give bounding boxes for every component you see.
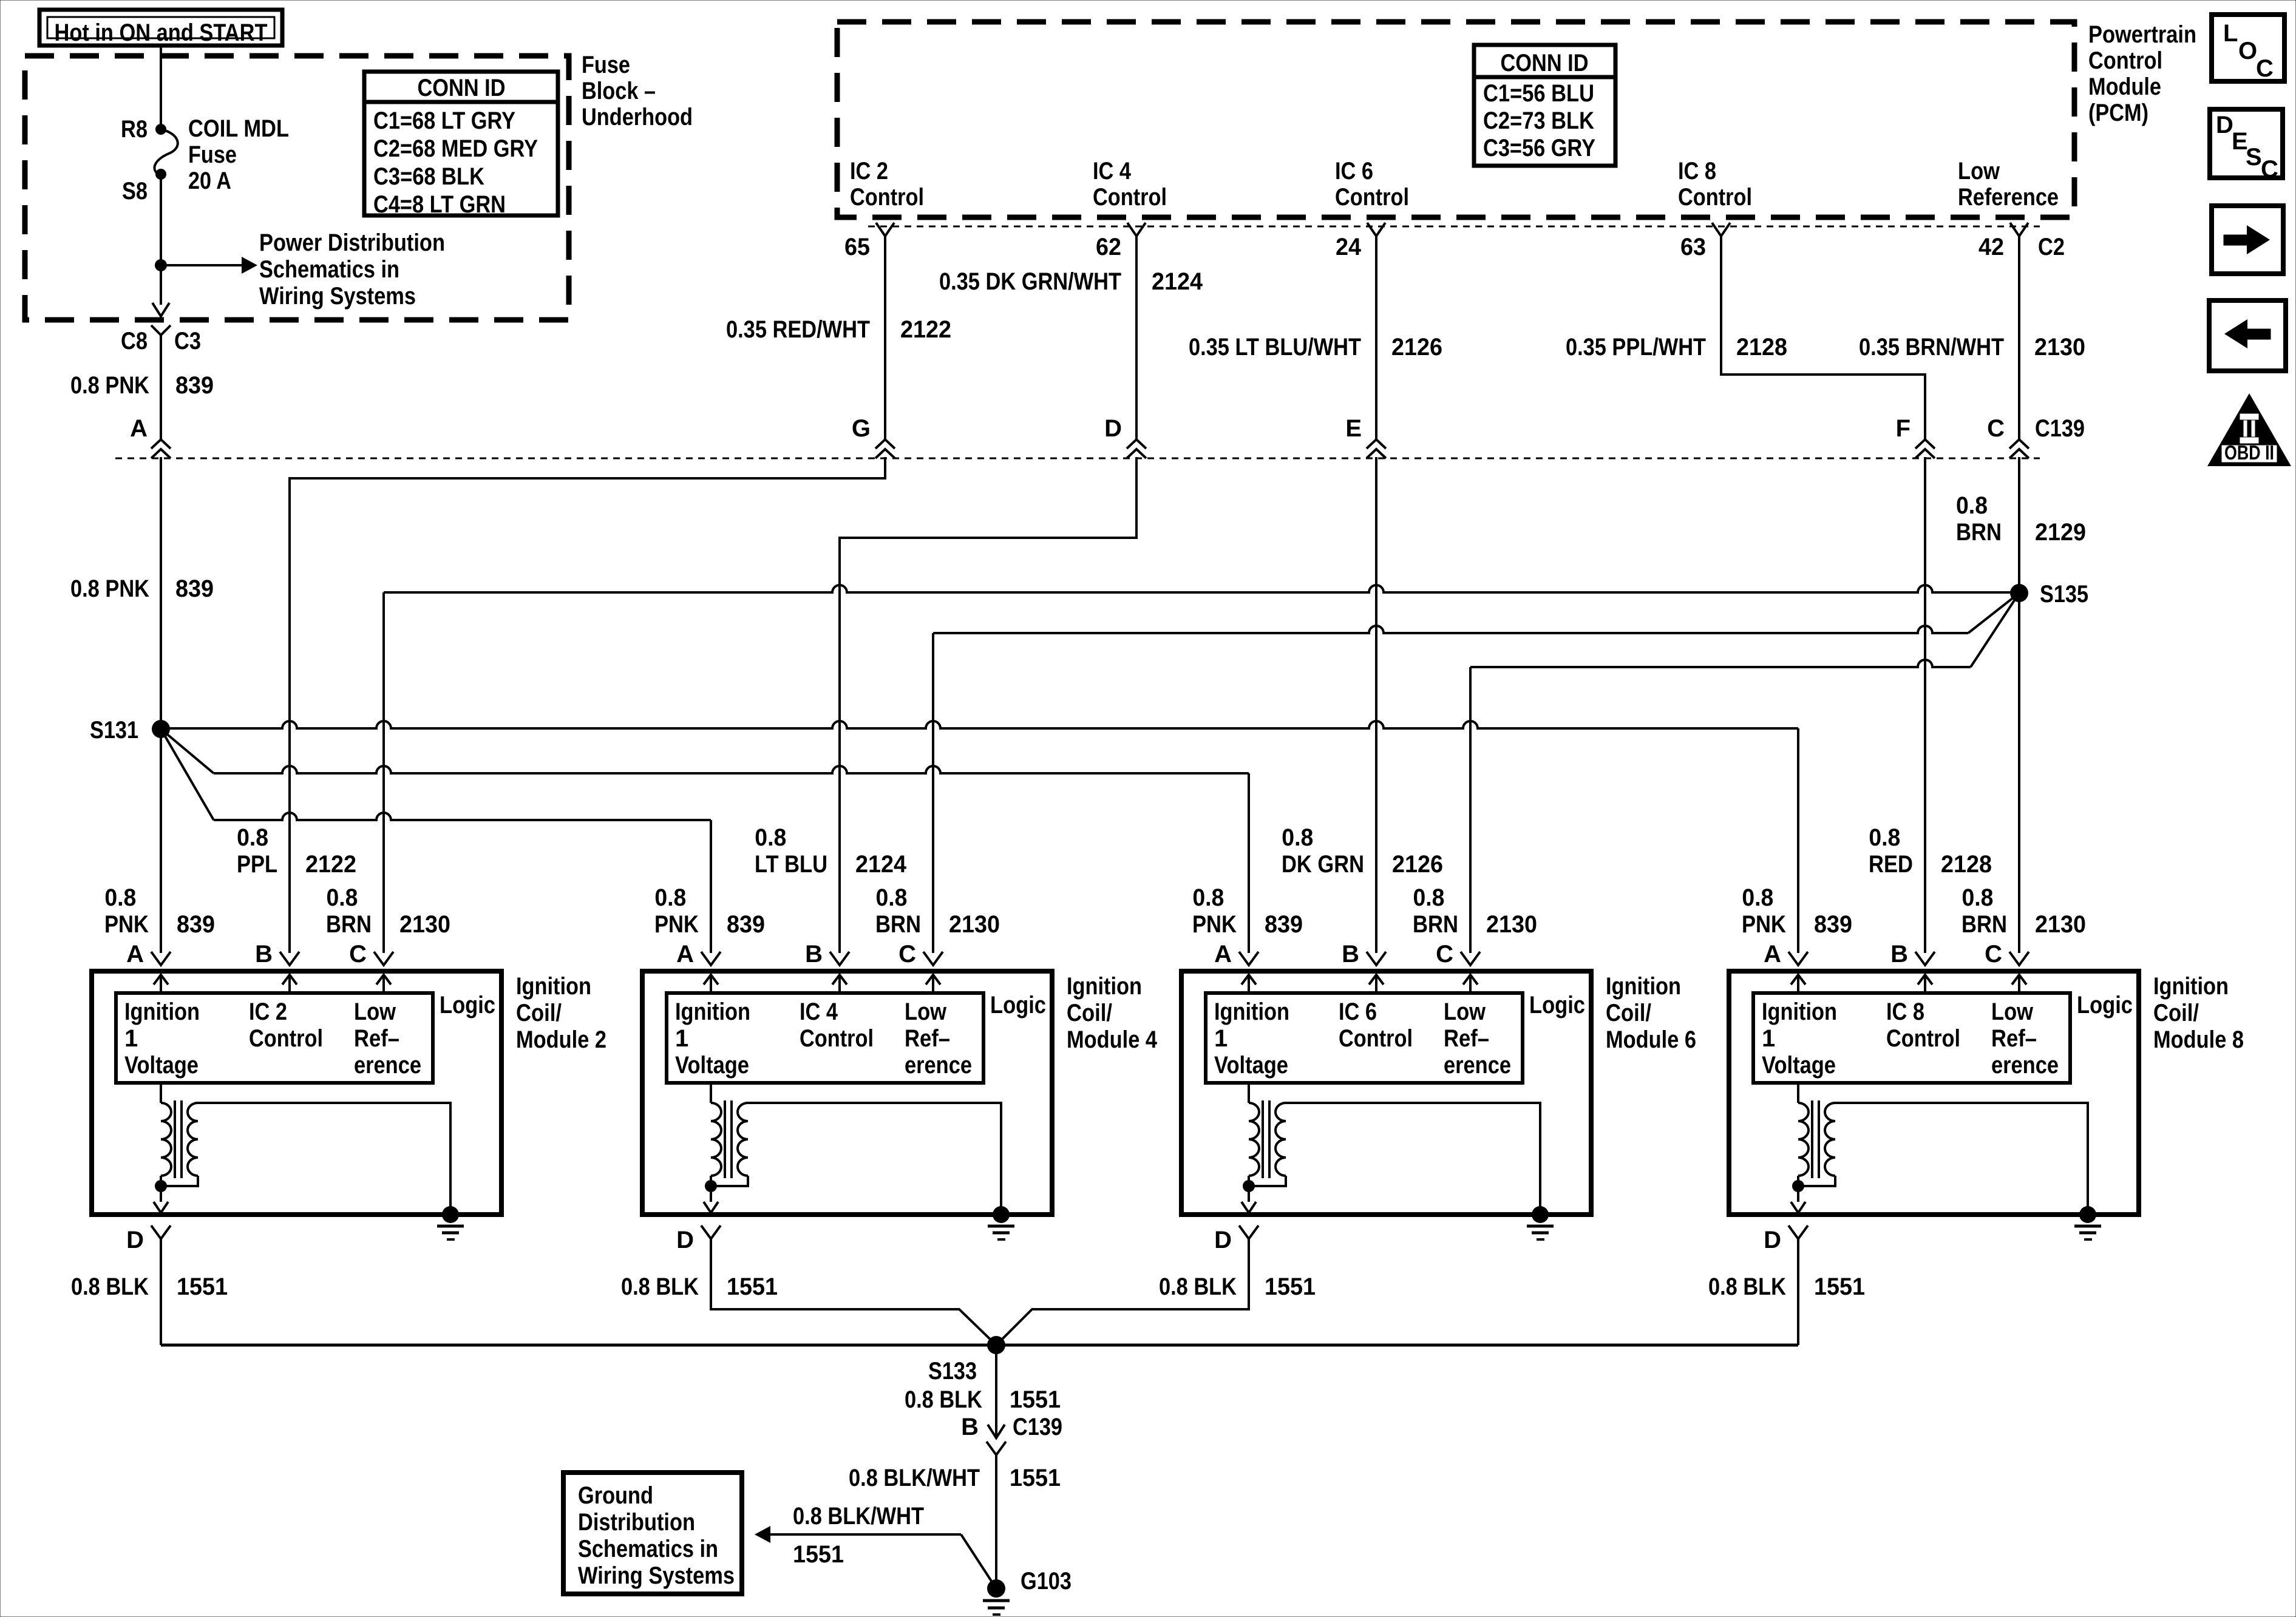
- module 6 ignition coil secondary winding: [1275, 1103, 1286, 1176]
- svg-text:B: B: [961, 1414, 979, 1440]
- svg-text:0.8 BLK: 0.8 BLK: [1159, 1273, 1237, 1300]
- module 4 terminal A internal arrow: [704, 975, 718, 993]
- svg-text:0.8: 0.8: [1956, 492, 1988, 519]
- module 8 label "Ignition Coil/Module 8": [2153, 973, 2244, 1053]
- module 2 label "Ignition Coil/Module 2": [516, 973, 606, 1053]
- module 2 terminal C internal arrow: [376, 975, 391, 993]
- module 6 transformer core: [1263, 1100, 1269, 1178]
- svg-text:Wiring Systems: Wiring Systems: [578, 1562, 735, 1589]
- module 8 terminal A connector symbol: [1788, 952, 1808, 965]
- PCM pin 63 connector symbol: [1712, 223, 1730, 236]
- svg-text:C139: C139: [1013, 1414, 1062, 1440]
- circuit number 1551 at S133: [1010, 1386, 1061, 1413]
- C139 B connector symbol (arrow and chevron down): [987, 1425, 1006, 1455]
- ignition coil/module 2 outer box: [92, 971, 501, 1215]
- svg-text:D: D: [1104, 415, 1122, 442]
- PCM dashed box (Powertrain Control Module): [837, 22, 2074, 217]
- svg-text:Module 4: Module 4: [1067, 1026, 1158, 1053]
- circuit number 839 (upper): [175, 372, 214, 399]
- svg-text:0.35 RED/WHT: 0.35 RED/WHT: [726, 316, 870, 343]
- svg-text:2128: 2128: [1941, 851, 1992, 878]
- svg-text:Logic: Logic: [1529, 992, 1585, 1019]
- svg-text:0.8: 0.8: [237, 824, 268, 851]
- module 2 D drop wire: [160, 1239, 162, 1345]
- svg-text:Module 6: Module 6: [1606, 1026, 1696, 1053]
- ground bus wire (0.8 BLK 1551) from module 2 D and module 8 D: [161, 1344, 1798, 1347]
- C139 cavity F connector symbol: [1915, 439, 1935, 458]
- module 4 terminal C internal arrow: [926, 975, 940, 993]
- module 6 internal arrow to case bottom: [1241, 1186, 1256, 1213]
- wire label 0.35 DK GRN/WHT: [939, 268, 1121, 295]
- module 2 internal junction dot: [155, 1180, 167, 1192]
- pin number 62: [1096, 234, 1121, 260]
- svg-text:1551: 1551: [793, 1541, 844, 1568]
- module 4 ignition coil secondary winding: [738, 1103, 748, 1176]
- svg-text:C4=8 LT GRN: C4=8 LT GRN: [373, 191, 506, 218]
- cavity letter A: [130, 415, 148, 442]
- module 6 pin name Low Ref-erence: [1444, 998, 1511, 1079]
- svg-text:C3=68 BLK: C3=68 BLK: [373, 163, 484, 190]
- svg-text:D: D: [1764, 1227, 1781, 1253]
- svg-text:IC 6: IC 6: [1335, 158, 1373, 185]
- module 4 terminal B connector symbol: [830, 952, 849, 965]
- circuit number 2130 (PCM side): [2034, 334, 2085, 361]
- module 2 transformer core: [175, 1100, 182, 1178]
- svg-text:R8: R8: [121, 116, 148, 143]
- svg-text:IC 4: IC 4: [1093, 158, 1132, 185]
- svg-text:0.8: 0.8: [1413, 884, 1444, 911]
- wire label 0.35 LT BLU/WHT: [1189, 334, 1361, 361]
- splice label S133: [928, 1358, 977, 1385]
- module 8 logic box: [1753, 993, 2070, 1083]
- svg-text:C: C: [2256, 55, 2274, 82]
- module 8 internal junction dot: [1792, 1180, 1804, 1192]
- svg-text:2124: 2124: [855, 851, 907, 878]
- svg-text:2130: 2130: [399, 911, 450, 938]
- svg-text:Coil/: Coil/: [516, 1000, 562, 1026]
- row C2=73 BLK: [1483, 107, 1594, 134]
- C139 cavity D connector symbol: [1127, 439, 1146, 458]
- C139 cavity A connector symbol: [151, 439, 171, 458]
- OBD II triangle symbol: [2207, 393, 2291, 466]
- wire label 0.8 BLK 1551 at module 4 D: [621, 1273, 778, 1300]
- wire label 0.8 BLK 1551 at module 2 D: [71, 1273, 228, 1300]
- wire 2122 from pin 65 (0.35 RED/WHT): [884, 236, 886, 439]
- module 4 logic box: [667, 993, 983, 1083]
- module 8 terminal letter C: [1985, 941, 2002, 968]
- svg-text:Hot in ON and START: Hot in ON and START: [55, 19, 268, 46]
- arrowhead into ground distribution box: [755, 1526, 770, 1543]
- svg-text:0.35 PPL/WHT: 0.35 PPL/WHT: [1566, 334, 1706, 361]
- svg-text:B: B: [1342, 941, 1359, 968]
- module 4 transformer core: [725, 1100, 732, 1178]
- svg-text:42: 42: [1978, 234, 2004, 260]
- svg-text:B: B: [1890, 941, 1908, 968]
- wire 839 from C139 A to splice S131 (0.8 PNK): [160, 457, 162, 729]
- ground label G103: [1021, 1568, 1072, 1595]
- svg-text:erence: erence: [1444, 1052, 1511, 1079]
- wire 2122 from C139 G to module 2 terminal B (0.8 PPL): [290, 457, 885, 953]
- svg-text:D: D: [676, 1227, 694, 1253]
- svg-text:D: D: [2216, 112, 2233, 138]
- note text Ground Distribution Schematics in Wiring Systems: [578, 1482, 735, 1589]
- svg-text:Control: Control: [1678, 184, 1752, 211]
- svg-text:IC 6: IC 6: [1339, 998, 1377, 1025]
- svg-text:Low: Low: [1958, 158, 2000, 185]
- svg-text:839: 839: [1814, 911, 1852, 938]
- module 2 A drop wire from S131 (0.8 PNK 839): [160, 729, 162, 953]
- module 2 Logic label: [440, 992, 495, 1019]
- module 8 terminal A internal arrow: [1791, 975, 1805, 993]
- svg-text:Voltage: Voltage: [1762, 1052, 1836, 1079]
- wire label 0.8 PNK 839 at module 4 A: [654, 884, 765, 938]
- module 8 terminal letter D: [1764, 1227, 1781, 1253]
- svg-text:1551: 1551: [1010, 1386, 1061, 1413]
- svg-text:Ref–: Ref–: [1444, 1025, 1489, 1052]
- svg-text:Low: Low: [905, 998, 947, 1025]
- C139 cavity E connector symbol: [1367, 439, 1386, 458]
- ignition coil/module 4 outer box: [642, 971, 1052, 1215]
- svg-text:Fuse: Fuse: [188, 141, 237, 168]
- module 8 pin name Low Ref-erence: [1991, 998, 2059, 1079]
- wire 2124 from pin 62 (0.35 DK GRN/WHT): [1135, 236, 1138, 439]
- wire label 0.35 PPL/WHT: [1566, 334, 1706, 361]
- svg-text:CONN ID: CONN ID: [418, 75, 506, 101]
- svg-text:63: 63: [1680, 234, 1706, 260]
- svg-text:Control: Control: [1886, 1025, 1960, 1052]
- wire label 0.35 BRN/WHT: [1859, 334, 2004, 361]
- svg-text:C: C: [1985, 941, 2002, 968]
- cavity letter G: [852, 415, 871, 442]
- circuit number 1551 (vertical run): [1010, 1465, 1061, 1491]
- svg-text:OBD II: OBD II: [2224, 441, 2274, 464]
- wire from fuse S8 down to fuse block exit: [160, 174, 162, 305]
- svg-text:Control: Control: [850, 184, 924, 211]
- svg-text:2122: 2122: [900, 316, 951, 343]
- module 6 terminal letter A: [1214, 941, 1232, 968]
- svg-text:erence: erence: [905, 1052, 972, 1079]
- svg-text:BRN: BRN: [875, 911, 921, 938]
- module 4 internal arrow to case bottom: [704, 1186, 718, 1213]
- svg-text:2128: 2128: [1736, 334, 1787, 361]
- splice S131: [152, 720, 170, 738]
- svg-text:839: 839: [175, 575, 214, 602]
- wire 2129 from C139 C to splice S135 (0.8 BRN): [2018, 457, 2020, 593]
- svg-text:Schematics in: Schematics in: [259, 256, 399, 283]
- pin number 63: [1680, 234, 1706, 260]
- svg-text:Coil/: Coil/: [2153, 1000, 2199, 1026]
- svg-text:B: B: [255, 941, 273, 968]
- row C3=56 GRY: [1483, 135, 1595, 161]
- svg-text:Block –: Block –: [582, 78, 656, 104]
- svg-text:2129: 2129: [2035, 519, 2086, 546]
- module 6 terminal C internal arrow: [1463, 975, 1478, 993]
- module 8 secondary high-tension lead: [1835, 1103, 2088, 1215]
- module 4 terminal C connector symbol: [923, 952, 943, 965]
- wire label 0.8 BLK/WHT (vertical run): [849, 1465, 980, 1491]
- svg-text:0.35 LT BLU/WHT: 0.35 LT BLU/WHT: [1189, 334, 1361, 361]
- wire label 0.8 PNK (upper): [70, 372, 149, 399]
- module 6 primary-to-D wire: [1248, 1176, 1250, 1186]
- wire label 0.8 PNK 839 at module 2 A: [104, 884, 215, 938]
- note "Power Distribution Schematics in Wiring Systems": [259, 229, 445, 310]
- wire label 0.8 LT BLU 2124 at module 4 B: [755, 824, 907, 878]
- fuse F COIL MDL 20A S-curve element: [154, 129, 177, 175]
- wire label 0.8 BLK 1551 at module 8 D: [1708, 1273, 1865, 1300]
- module 2 secondary high-tension lead: [198, 1103, 450, 1215]
- svg-text:Schematics in: Schematics in: [578, 1536, 718, 1562]
- CONN ID header (fuse block): [418, 75, 506, 101]
- svg-text:1551: 1551: [727, 1273, 778, 1300]
- svg-text:PPL: PPL: [237, 851, 277, 878]
- wire label 0.8 PPL 2122 at module 2 B: [237, 824, 356, 878]
- module 6 secondary return wire: [1249, 1176, 1286, 1186]
- module 4 D drop wire with jog to S133: [711, 1239, 996, 1345]
- svg-text:65: 65: [844, 234, 870, 260]
- svg-text:PNK: PNK: [1742, 911, 1786, 938]
- forward arrow icon box: [2212, 206, 2283, 274]
- module 2 pin name Low Ref-erence: [354, 998, 421, 1079]
- cavity letter C: [1987, 415, 2005, 442]
- module 6 D drop wire with jog to S133: [996, 1239, 1249, 1345]
- svg-text:S131: S131: [90, 717, 138, 744]
- fuse block dashed box (Fuse Block - Underhood): [25, 56, 569, 320]
- svg-text:C: C: [1987, 415, 2005, 442]
- svg-text:0.8 BLK: 0.8 BLK: [1708, 1273, 1786, 1300]
- wire label 0.35 RED/WHT: [726, 316, 870, 343]
- svg-text:Voltage: Voltage: [1214, 1052, 1288, 1079]
- svg-text:Logic: Logic: [440, 992, 495, 1019]
- module 8 terminal C internal arrow: [2012, 975, 2026, 993]
- svg-text:2126: 2126: [1392, 851, 1443, 878]
- module 4 wire logic box to coil: [710, 1083, 712, 1103]
- cavity letter E: [1345, 415, 1362, 442]
- brn line 2 from module 4 C to S135 with diagonal: [933, 593, 2019, 633]
- svg-text:S8: S8: [122, 178, 148, 205]
- PCM label "Powertrain Control Module (PCM)": [2088, 21, 2196, 126]
- svg-text:0.8: 0.8: [755, 824, 786, 851]
- svg-text:Module 2: Module 2: [516, 1026, 606, 1053]
- module 8 pin name IC 8 Control: [1886, 998, 1960, 1052]
- svg-text:Coil/: Coil/: [1067, 1000, 1112, 1026]
- label R8: [121, 116, 148, 143]
- svg-text:C: C: [2261, 156, 2278, 183]
- wire label 0.8 PNK 839 at module 8 A: [1742, 884, 1852, 938]
- fuse value label "COIL MDL Fuse 20 A": [188, 115, 289, 194]
- svg-text:Underhood: Underhood: [582, 104, 693, 131]
- wire 2126 from C139 E to module 6 terminal B (0.8 DK GRN): [1375, 457, 1377, 953]
- svg-text:Power Distribution: Power Distribution: [259, 229, 445, 256]
- PCM pin 42 connector symbol: [2010, 223, 2028, 236]
- svg-text:PNK: PNK: [1192, 911, 1237, 938]
- LOC icon box: [2212, 15, 2284, 82]
- svg-text:0.8 BLK: 0.8 BLK: [621, 1273, 699, 1300]
- module 2 internal arrow to case bottom: [154, 1186, 168, 1213]
- svg-text:839: 839: [177, 911, 215, 938]
- svg-text:Ignition: Ignition: [516, 973, 591, 1000]
- svg-text:LT BLU: LT BLU: [755, 851, 827, 878]
- module 2 wire logic box to coil: [160, 1083, 162, 1103]
- splice S135: [2010, 584, 2028, 602]
- module 8 primary-to-D wire: [1797, 1176, 1799, 1186]
- wire label 0.8 BRN 2130 at module 6 C: [1413, 884, 1537, 938]
- module 4 terminal A connector symbol: [701, 952, 721, 965]
- svg-text:1: 1: [1762, 1025, 1775, 1052]
- module 8 internal arrow to case bottom: [1791, 1186, 1805, 1213]
- module 8 ground symbol: [2074, 1206, 2101, 1239]
- svg-text:0.8: 0.8: [1282, 824, 1313, 851]
- module 6 terminal B internal arrow: [1369, 975, 1384, 993]
- PCM connector C2 dashed line: [868, 226, 2040, 228]
- module 4 primary-to-D wire: [710, 1176, 712, 1186]
- svg-text:(PCM): (PCM): [2088, 100, 2148, 126]
- back arrow icon box: [2209, 300, 2286, 371]
- module 6 secondary high-tension lead: [1286, 1103, 1540, 1215]
- svg-text:20 A: 20 A: [188, 168, 231, 194]
- svg-text:Wiring Systems: Wiring Systems: [259, 283, 416, 310]
- svg-text:Low: Low: [1991, 998, 2034, 1025]
- module 4 terminal letter D: [676, 1227, 694, 1253]
- module 6 C drop wire (0.8 BRN 2130): [1469, 667, 1472, 953]
- svg-text:Control: Control: [1093, 184, 1167, 211]
- svg-text:Ref–: Ref–: [1991, 1025, 2037, 1052]
- svg-text:Voltage: Voltage: [675, 1052, 749, 1079]
- svg-text:1551: 1551: [1814, 1273, 1865, 1300]
- splice label S131: [90, 717, 138, 744]
- row C3=68 BLK: [373, 163, 484, 190]
- row C1=68 LT GRY: [373, 107, 515, 134]
- svg-text:0.8: 0.8: [1742, 884, 1773, 911]
- svg-text:D: D: [126, 1227, 144, 1253]
- module 8 terminal B internal arrow: [1918, 975, 1932, 993]
- svg-text:BRN: BRN: [1413, 911, 1458, 938]
- pin function label IC 4 Control: [1093, 158, 1167, 211]
- module 8 terminal B connector symbol: [1915, 952, 1935, 965]
- module 4 terminal letter A: [676, 941, 694, 968]
- svg-text:24: 24: [1336, 234, 1362, 260]
- module 2 terminal A connector symbol: [151, 952, 171, 965]
- svg-text:0.8 BLK: 0.8 BLK: [71, 1273, 149, 1300]
- module 2 ignition coil secondary winding: [188, 1103, 198, 1176]
- connector C139 dashed line: [115, 458, 2040, 459]
- svg-text:DK GRN: DK GRN: [1282, 851, 1364, 878]
- wire label 0.8 RED 2128 at module 8 B: [1869, 824, 1992, 878]
- svg-text:PNK: PNK: [654, 911, 699, 938]
- svg-text:C2=68 MED GRY: C2=68 MED GRY: [373, 135, 538, 162]
- module 6 terminal letter B: [1342, 941, 1359, 968]
- ignition coil/module 8 outer box: [1729, 971, 2139, 1215]
- module 2 secondary return wire: [161, 1176, 198, 1186]
- svg-text:G: G: [852, 415, 871, 442]
- module 2 C drop wire (0.8 BRN 2130): [382, 592, 385, 953]
- svg-text:Ignition: Ignition: [1606, 973, 1681, 1000]
- svg-text:Fuse: Fuse: [582, 52, 630, 78]
- svg-text:1551: 1551: [177, 1273, 228, 1300]
- CONN ID header (PCM): [1501, 50, 1589, 76]
- svg-text:62: 62: [1096, 234, 1121, 260]
- svg-text:O: O: [2238, 38, 2257, 64]
- svg-text:0.8: 0.8: [654, 884, 686, 911]
- svg-text:Control: Control: [800, 1025, 874, 1052]
- svg-text:S133: S133: [928, 1358, 977, 1385]
- module 8 ignition coil primary winding: [1798, 1103, 1809, 1176]
- cavity letter D (C139): [1104, 415, 1122, 442]
- splice label S135: [2040, 581, 2088, 608]
- arrowhead leaving fuse block: [152, 303, 169, 316]
- svg-text:Distribution: Distribution: [578, 1509, 695, 1536]
- module 4 secondary high-tension lead: [748, 1103, 1001, 1215]
- svg-text:Ignition: Ignition: [1067, 973, 1142, 1000]
- svg-text:COIL MDL: COIL MDL: [188, 115, 289, 142]
- svg-text:C: C: [1436, 941, 1453, 968]
- module 8 C drop wire from S135 (0.8 BRN 2130): [2018, 593, 2020, 953]
- fuse block label "Fuse Block - Underhood": [582, 52, 693, 131]
- svg-text:C1=56 BLU: C1=56 BLU: [1483, 80, 1594, 107]
- svg-text:Ignition: Ignition: [2153, 973, 2229, 1000]
- pin number 42: [1978, 234, 2004, 260]
- module 6 terminal letter C: [1436, 941, 1453, 968]
- module 2 terminal letter C: [349, 941, 367, 968]
- svg-text:C2: C2: [2038, 234, 2065, 260]
- wire 1551 from S133 to C139 B: [995, 1345, 997, 1437]
- wire label 0.8 BRN 2130 at module 2 C: [326, 884, 450, 938]
- svg-text:Ignition: Ignition: [1214, 998, 1289, 1025]
- wire from Hot in ON and START into fuse block: [160, 46, 162, 124]
- svg-text:Module: Module: [2088, 73, 2161, 100]
- C139 cavity G connector symbol: [875, 439, 895, 458]
- svg-text:erence: erence: [354, 1052, 421, 1079]
- wire 2128 from pin 63 with jog (0.35 PPL/WHT): [1721, 236, 1925, 439]
- wire label 0.8 PNK (below C139): [70, 575, 149, 602]
- module 6 terminal A internal arrow: [1241, 975, 1256, 993]
- wire label 0.8 BLK/WHT (branch): [793, 1503, 924, 1530]
- svg-text:B: B: [805, 941, 823, 968]
- wire 2130 from pin 42 (0.35 BRN/WHT): [2018, 236, 2020, 439]
- svg-text:A: A: [1764, 941, 1781, 968]
- connector designator C139 (top): [2035, 415, 2085, 442]
- module 4 ground symbol: [988, 1206, 1014, 1239]
- svg-text:0.35 BRN/WHT: 0.35 BRN/WHT: [1859, 334, 2004, 361]
- svg-text:0.8: 0.8: [104, 884, 136, 911]
- module 8 terminal C connector symbol: [2009, 952, 2029, 965]
- circuit number 1551 (branch): [793, 1541, 844, 1568]
- ground G103 symbol: [983, 1579, 1010, 1615]
- fuse terminal R8 dot: [155, 124, 166, 135]
- module 6 label "Ignition Coil/Module 6": [1606, 973, 1696, 1053]
- wire 2124 from C139 D to module 4 terminal B (0.8 LT BLU): [840, 457, 1136, 953]
- pnk line 2 from S131 to module 6 A with diagonal: [161, 729, 1249, 953]
- wire label 0.8 BRN 2130 at module 8 C: [1961, 884, 2086, 938]
- label C8: [121, 328, 148, 354]
- svg-text:Module 8: Module 8: [2153, 1026, 2244, 1053]
- module 6 terminal letter D: [1214, 1227, 1232, 1253]
- splice S133: [987, 1336, 1005, 1354]
- PCM pin 24 connector symbol: [1367, 223, 1385, 236]
- fuse terminal S8 dot: [155, 169, 166, 180]
- svg-text:IC 2: IC 2: [850, 158, 888, 185]
- module 6 terminal D connector symbol: [1239, 1225, 1258, 1239]
- svg-text:BRN: BRN: [1956, 519, 2002, 546]
- svg-text:erence: erence: [1991, 1052, 2059, 1079]
- module 8 D drop wire: [1797, 1239, 1799, 1345]
- svg-text:Control: Control: [1339, 1025, 1413, 1052]
- pin function label IC 8 Control: [1678, 158, 1752, 211]
- svg-text:Logic: Logic: [2077, 992, 2133, 1019]
- svg-text:E: E: [1345, 415, 1362, 442]
- svg-text:CONN ID: CONN ID: [1501, 50, 1589, 76]
- svg-text:BRN: BRN: [1961, 911, 2007, 938]
- svg-text:PNK: PNK: [104, 911, 149, 938]
